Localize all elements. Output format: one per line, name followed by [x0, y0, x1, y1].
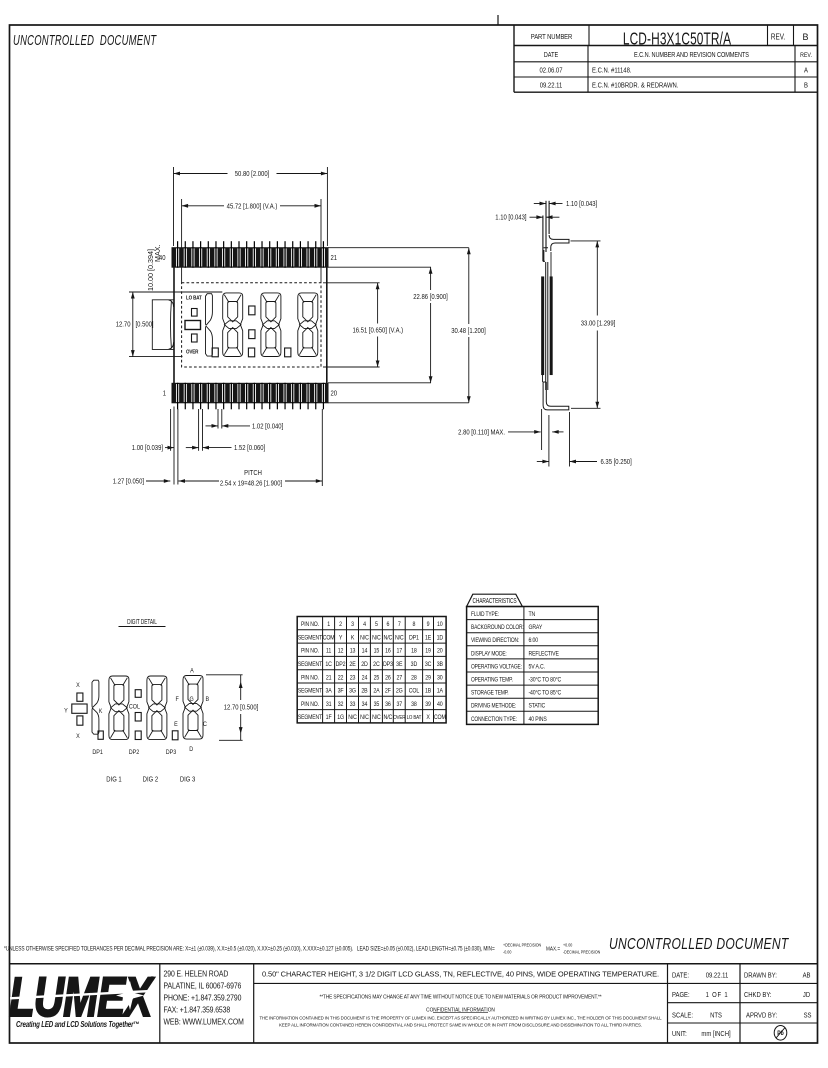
digit DIG 2	[261, 293, 281, 357]
svg-text:N/C: N/C	[384, 635, 393, 642]
svg-text:REV.: REV.	[771, 32, 785, 42]
svg-text:1.52 [0.060]: 1.52 [0.060]	[234, 445, 265, 453]
decimal point DP1	[212, 348, 218, 357]
svg-text:1.10 [0.043]: 1.10 [0.043]	[495, 214, 526, 222]
svg-text:3B: 3B	[437, 662, 443, 669]
svg-text:N/C: N/C	[384, 715, 393, 722]
detail annunciator Y	[64, 704, 87, 715]
svg-text:DRIVING METHODE:: DRIVING METHODE:	[471, 703, 517, 710]
svg-text:PITCH: PITCH	[244, 469, 262, 477]
svg-text:DATE: DATE	[544, 51, 559, 59]
svg-text:6.35 [0.250]: 6.35 [0.250]	[601, 458, 632, 466]
digit DIG 1	[223, 293, 243, 357]
svg-text:OVER: OVER	[393, 715, 405, 722]
svg-text:1A: 1A	[437, 688, 443, 695]
annunciator square X (lower)	[192, 334, 198, 342]
svg-text:28: 28	[411, 675, 417, 682]
detail digit DIG 3 with segment labels	[174, 667, 209, 753]
svg-text:0.50" CHARACTER HEIGHT, 3 1/2: 0.50" CHARACTER HEIGHT, 3 1/2 DIGIT LCD …	[262, 969, 659, 978]
svg-text:34: 34	[362, 701, 368, 708]
svg-text:CONNECTION TYPE:: CONNECTION TYPE:	[471, 716, 517, 723]
svg-text:30: 30	[437, 675, 443, 682]
svg-text:1D: 1D	[437, 635, 444, 642]
characteristics table	[467, 594, 599, 724]
detail DP3	[166, 731, 178, 756]
dimension 1.02 [0.040]	[206, 423, 284, 431]
svg-text:E.C.N. #11148.: E.C.N. #11148.	[592, 67, 632, 75]
svg-text:GRAY: GRAY	[529, 625, 543, 632]
svg-text:NTS: NTS	[710, 1012, 722, 1020]
svg-text:1 OF 1: 1 OF 1	[706, 991, 729, 999]
svg-text:12.70: 12.70	[116, 321, 131, 329]
svg-text:3A: 3A	[326, 688, 332, 695]
dimension 50.80 [2.000]	[174, 167, 328, 246]
svg-text:39: 39	[425, 701, 431, 708]
svg-text:2D: 2D	[361, 662, 368, 669]
svg-text:SEGMENT: SEGMENT	[298, 715, 323, 722]
svg-text:N/C: N/C	[360, 715, 369, 722]
svg-text:FLUID TYPE:: FLUID TYPE:	[471, 611, 499, 618]
svg-text:31: 31	[326, 701, 332, 708]
svg-text:E.C.N. #10BRDR. & REDRAWN.: E.C.N. #10BRDR. & REDRAWN.	[592, 82, 679, 90]
svg-text:-0.00: -0.00	[503, 949, 512, 955]
svg-text:*UNLESS OTHERWISE SPECIFIED TO: *UNLESS OTHERWISE SPECIFIED TOLERANCES P…	[4, 946, 495, 953]
digit detail title	[119, 618, 166, 626]
svg-text:02.06.07: 02.06.07	[539, 67, 562, 75]
svg-text:C: C	[203, 720, 207, 728]
svg-text:3F: 3F	[338, 688, 344, 695]
svg-text:18: 18	[411, 648, 417, 655]
svg-text:X: X	[76, 732, 80, 740]
svg-text:+0.00: +0.00	[563, 942, 573, 948]
svg-text:+DECIMAL PRECISION: +DECIMAL PRECISION	[503, 942, 541, 948]
svg-text:K: K	[351, 635, 355, 642]
svg-text:B: B	[205, 695, 209, 703]
svg-text:STORAGE TEMP.: STORAGE TEMP.	[471, 690, 509, 697]
svg-text:N/C: N/C	[372, 635, 381, 642]
svg-text:37: 37	[396, 701, 402, 708]
viewing area (dashed)	[182, 283, 321, 367]
svg-text:12: 12	[338, 648, 344, 655]
svg-text:X: X	[426, 715, 430, 722]
detail digit DIG 1	[109, 676, 129, 740]
svg-text:DP1: DP1	[409, 635, 420, 642]
svg-text:2.54 x 19=48.26 [1.900]: 2.54 x 19=48.26 [1.900]	[220, 480, 282, 488]
svg-text:22: 22	[338, 675, 344, 682]
pin assignment table	[297, 617, 446, 723]
dimension 12.70 [0.500] character height	[116, 292, 223, 357]
svg-text:UNCONTROLLED DOCUMENT: UNCONTROLLED DOCUMENT	[13, 32, 157, 49]
front view: top pin row (pins 40-21)	[172, 241, 328, 268]
svg-text:PIN NO.: PIN NO.	[301, 622, 319, 629]
svg-text:25: 25	[374, 675, 380, 682]
pitch dimension 2.54 x 19=48.26 [1.900]	[179, 469, 323, 487]
dimension 1.10 [0.043] upper	[534, 200, 598, 208]
svg-text:10: 10	[437, 622, 443, 629]
svg-text:35: 35	[374, 701, 380, 708]
svg-text:38: 38	[411, 701, 417, 708]
svg-text:13: 13	[350, 648, 356, 655]
tolerance note	[4, 942, 600, 955]
svg-text:REV.: REV.	[800, 53, 812, 60]
svg-text:UNCONTROLLED DOCUMENT: UNCONTROLLED DOCUMENT	[609, 935, 790, 953]
svg-text:290 E. HELEN ROAD: 290 E. HELEN ROAD	[164, 969, 229, 979]
svg-text:DP2: DP2	[129, 748, 140, 756]
svg-text:®: ®	[150, 976, 155, 983]
svg-text:DP3: DP3	[166, 748, 177, 756]
svg-text:45.72 [1.800] (V.A.): 45.72 [1.800] (V.A.)	[227, 203, 278, 211]
detail annunciator X lower	[76, 716, 83, 740]
svg-text:AB: AB	[803, 972, 811, 980]
svg-text:D: D	[189, 745, 193, 753]
svg-text:N/C: N/C	[348, 715, 357, 722]
svg-text:COL: COL	[129, 703, 141, 711]
svg-text:A: A	[804, 67, 808, 75]
svg-text:DRAWN BY:: DRAWN BY:	[744, 972, 777, 980]
svg-text:2E: 2E	[349, 662, 355, 669]
svg-text:MAX.=: MAX.=	[546, 946, 560, 953]
svg-text:22.86 [0.900]: 22.86 [0.900]	[413, 293, 448, 301]
svg-text:E.C.N. NUMBER AND REVISION COM: E.C.N. NUMBER AND REVISION COMMENTS	[634, 51, 749, 59]
svg-text:PHONE: +1.847.359.2790: PHONE: +1.847.359.2790	[164, 993, 242, 1003]
svg-text:11: 11	[326, 648, 332, 655]
dimension 33.00 [1.299]	[571, 241, 616, 408]
detail DP1	[92, 731, 103, 756]
svg-text:26: 26	[385, 675, 391, 682]
svg-text:COM: COM	[434, 715, 446, 722]
svg-text:2B: 2B	[361, 688, 367, 695]
annunciator rect Y	[185, 321, 201, 330]
svg-text:21: 21	[326, 675, 332, 682]
svg-text:Pb: Pb	[777, 1031, 784, 1038]
svg-text:20: 20	[437, 648, 443, 655]
info block: scale / aprvd by	[672, 1012, 812, 1020]
front view: bottom pin row (pins 1-20)	[172, 383, 328, 410]
svg-text:14: 14	[362, 648, 368, 655]
svg-text:5V A.C.: 5V A.C.	[529, 664, 546, 671]
svg-text:[0.500]: [0.500]	[136, 321, 154, 329]
svg-text:SEGMENT: SEGMENT	[298, 662, 323, 669]
svg-text:SS: SS	[804, 1012, 812, 1020]
svg-text:PART NUMBER: PART NUMBER	[531, 33, 573, 41]
svg-text:BACKGROUND COLOR:: BACKGROUND COLOR:	[471, 625, 524, 632]
svg-text:Y: Y	[339, 635, 343, 642]
svg-text:29: 29	[425, 675, 431, 682]
svg-text:DP1: DP1	[92, 748, 103, 756]
svg-text:TN: TN	[529, 611, 536, 618]
svg-text:DIG 2: DIG 2	[143, 776, 159, 784]
svg-text:3E: 3E	[396, 662, 402, 669]
svg-text:Y: Y	[64, 707, 68, 715]
info block: unit + Pb-free symbol	[672, 1026, 787, 1041]
svg-text:WEB: WWW.LUMEX.COM: WEB: WWW.LUMEX.COM	[164, 1017, 244, 1027]
svg-text:N/C: N/C	[360, 635, 369, 642]
svg-text:X: X	[76, 681, 80, 689]
svg-text:LO BAT: LO BAT	[186, 295, 203, 302]
svg-text:1.00 [0.039]: 1.00 [0.039]	[132, 445, 163, 453]
svg-text:CHARACTERISTICS: CHARACTERISTICS	[472, 598, 516, 605]
dimension 1.27 [0.050]	[113, 478, 171, 486]
dimension 22.86 [0.900]	[328, 267, 448, 383]
svg-text:2G: 2G	[396, 688, 403, 695]
svg-text:E: E	[174, 720, 178, 728]
svg-text:OPERATING VOLTAGE:: OPERATING VOLTAGE:	[471, 664, 522, 671]
svg-text:N/C: N/C	[395, 635, 404, 642]
svg-text:UNIT:: UNIT:	[672, 1030, 687, 1038]
svg-text:CHKD BY:: CHKD BY:	[744, 991, 772, 999]
svg-text:N/C: N/C	[372, 715, 381, 722]
svg-text:-30°C TO 80°C: -30°C TO 80°C	[529, 677, 562, 684]
svg-text:09.22.11: 09.22.11	[706, 972, 729, 980]
dimension 45.72 [1.800] (V.A.)	[182, 203, 321, 211]
half-digit 1 (segments K)	[206, 294, 213, 356]
dimension 1.10 [0.043] lower	[495, 214, 559, 222]
svg-text:1E: 1E	[425, 635, 431, 642]
svg-text:2C: 2C	[373, 662, 380, 669]
svg-text:1C: 1C	[325, 662, 332, 669]
detail DP2	[129, 731, 141, 756]
svg-text:1.02 [0.040]: 1.02 [0.040]	[252, 423, 283, 431]
colon lower square	[249, 330, 255, 339]
bottom title block grid	[10, 964, 818, 1043]
svg-text:32: 32	[338, 701, 344, 708]
svg-text:DIG 1: DIG 1	[106, 776, 122, 784]
front view: LCD glass outline	[174, 248, 327, 403]
detail COL label and colon squares	[129, 690, 141, 721]
svg-text:B: B	[804, 82, 808, 90]
svg-text:PAGE:: PAGE:	[672, 991, 690, 999]
svg-text:20: 20	[331, 390, 338, 398]
svg-text:Creating LED and LCD Solutions: Creating LED and LCD Solutions Together™	[16, 1021, 139, 1029]
info block: date / drawn by	[672, 972, 811, 980]
svg-text:OVER: OVER	[186, 349, 199, 356]
svg-text:2F: 2F	[385, 688, 391, 695]
svg-text:15: 15	[374, 648, 380, 655]
side view: bottom bent lead	[543, 382, 569, 410]
svg-text:FAX: +1.847.359.6538: FAX: +1.847.359.6538	[164, 1005, 231, 1015]
dimension 30.48 [1.200]	[328, 248, 486, 403]
svg-text:3D: 3D	[411, 662, 418, 669]
svg-text:SCALE:: SCALE:	[672, 1012, 693, 1020]
svg-text:PIN NO.: PIN NO.	[301, 701, 319, 708]
svg-text:09.22.11: 09.22.11	[540, 82, 563, 90]
svg-text:33: 33	[350, 701, 356, 708]
svg-text:16.51 [0.650] (V.A.): 16.51 [0.650] (V.A.)	[352, 327, 403, 335]
svg-text:DATE:: DATE:	[672, 972, 689, 980]
svg-text:KEEP ALL INFORMATION CONTAINED: KEEP ALL INFORMATION CONTAINED HEREIN CO…	[279, 1022, 642, 1027]
svg-text:LCD-H3X1C50TR/A: LCD-H3X1C50TR/A	[623, 29, 732, 49]
svg-text:SEGMENT: SEGMENT	[298, 688, 323, 695]
svg-text:B: B	[802, 32, 808, 42]
side view: glass stack	[541, 250, 552, 390]
dimension 6.35 [0.250]	[537, 412, 632, 467]
svg-text:36: 36	[385, 701, 391, 708]
annunciator square X (upper)	[192, 309, 198, 317]
info block: page / chkd by	[672, 991, 810, 999]
svg-text:6:00: 6:00	[529, 638, 539, 645]
lead dimension extension lines	[171, 407, 323, 487]
svg-text:27: 27	[396, 675, 402, 682]
svg-text:PALATINE, IL 60067-6976: PALATINE, IL 60067-6976	[164, 981, 242, 991]
svg-text:1.27 [0.050]: 1.27 [0.050]	[113, 478, 144, 486]
svg-text:1.10 [0.043]: 1.10 [0.043]	[566, 200, 597, 208]
svg-text:30.48 [1.200]: 30.48 [1.200]	[451, 327, 486, 335]
svg-text:F: F	[176, 695, 180, 703]
svg-text:COL: COL	[409, 688, 420, 695]
address block	[164, 969, 244, 1027]
svg-text:40: 40	[437, 701, 443, 708]
side view: top bent lead	[544, 235, 569, 251]
detail annunciator X upper	[76, 681, 83, 701]
svg-text:21: 21	[331, 254, 338, 262]
svg-text:DIGIT DETAIL: DIGIT DETAIL	[127, 618, 157, 626]
svg-text:mm [INCH]: mm [INCH]	[701, 1030, 730, 1038]
svg-text:33.00 [1.299]: 33.00 [1.299]	[581, 320, 616, 328]
svg-text:24: 24	[362, 675, 368, 682]
svg-text:16: 16	[385, 648, 391, 655]
decimal point DP2	[248, 348, 254, 357]
svg-text:40: 40	[159, 254, 166, 262]
svg-text:THE INFORMATION CONTAINED IN T: THE INFORMATION CONTAINED IN THIS DOCUME…	[259, 1015, 662, 1020]
svg-text:REFLECTIVE: REFLECTIVE	[529, 651, 559, 658]
detail dimension 12.70 [0.500]	[206, 675, 258, 741]
dimension 2.80 [0.110] MAX.	[458, 409, 563, 450]
svg-text:2A: 2A	[373, 688, 379, 695]
svg-text:DISPLAY MODE:: DISPLAY MODE:	[471, 651, 507, 658]
glass tab (left edge)	[152, 300, 174, 350]
svg-text:STATIC: STATIC	[529, 703, 546, 710]
svg-text:G: G	[189, 695, 193, 703]
svg-text:17: 17	[396, 648, 402, 655]
svg-text:3C: 3C	[425, 662, 432, 669]
svg-text:-40°C TO 85°C: -40°C TO 85°C	[529, 690, 562, 697]
digit DIG 3	[298, 293, 318, 357]
LUMEX logo	[9, 966, 155, 1029]
svg-text:-DECIMAL PRECISION: -DECIMAL PRECISION	[563, 949, 600, 955]
svg-text:1G: 1G	[337, 715, 344, 722]
svg-text:1F: 1F	[326, 715, 332, 722]
svg-text:SEGMENT: SEGMENT	[298, 635, 323, 642]
svg-text:1B: 1B	[425, 688, 431, 695]
decimal point DP3	[285, 348, 291, 357]
dimension 1.00 [0.039]	[132, 445, 174, 453]
svg-text:50.80 [2.000]: 50.80 [2.000]	[235, 171, 270, 179]
svg-text:**THE SPECIFICATIONS MAY CHANG: **THE SPECIFICATIONS MAY CHANGE AT ANY T…	[320, 994, 602, 1000]
svg-text:3G: 3G	[349, 688, 356, 695]
colon upper square	[249, 306, 255, 315]
confidential information heading	[426, 1007, 495, 1013]
svg-text:VIEWING DIRECTION:: VIEWING DIRECTION:	[471, 638, 520, 645]
svg-text:PIN NO.: PIN NO.	[301, 648, 319, 655]
title block: part number / revision table	[514, 25, 818, 92]
svg-text:2.80 [0.110] MAX.: 2.80 [0.110] MAX.	[458, 429, 505, 437]
svg-text:OPERATING TEMP.: OPERATING TEMP.	[471, 677, 513, 684]
svg-text:12.70 [0.500]: 12.70 [0.500]	[224, 704, 259, 712]
svg-text:1: 1	[163, 390, 167, 398]
detail digit DIG 2	[147, 676, 167, 740]
svg-text:PIN NO.: PIN NO.	[301, 675, 319, 682]
svg-text:DP3: DP3	[383, 662, 394, 669]
dimension 1.52 [0.060]	[186, 445, 266, 453]
svg-text:DP2: DP2	[336, 662, 347, 669]
svg-text:19: 19	[425, 648, 431, 655]
dimension 45.72 V.A. extension lines	[181, 199, 183, 283]
svg-text:COM: COM	[323, 635, 335, 642]
svg-text:DIG 3: DIG 3	[180, 776, 196, 784]
svg-text:40 PINS: 40 PINS	[529, 716, 547, 723]
svg-text:JD: JD	[803, 991, 810, 999]
detail half-digit K	[92, 680, 103, 734]
svg-text:APRVD BY:: APRVD BY:	[746, 1012, 777, 1020]
dimension 16.51 [0.650] (V.A.)	[323, 283, 403, 367]
svg-text:23: 23	[350, 675, 356, 682]
side view: upper pin	[543, 201, 549, 261]
svg-text:LO BAT: LO BAT	[407, 715, 422, 722]
